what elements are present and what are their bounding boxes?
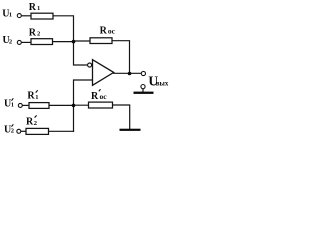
resistor Rocp: [89, 102, 113, 108]
label Roc: [100, 25, 116, 36]
label U1p: [4, 98, 14, 109]
ground bar output: [134, 92, 154, 94]
label R2p: [26, 115, 37, 127]
resistor R1p: [29, 103, 49, 109]
wire Rocp to ground: [113, 105, 130, 129]
svg-text:1: 1: [9, 12, 12, 19]
terminal output common: [141, 85, 145, 89]
label Uvyh: [148, 73, 168, 88]
svg-text:R: R: [100, 25, 108, 36]
resistor R1: [31, 13, 53, 19]
terminal U1p: [18, 103, 22, 107]
wire U1p to R1p: [22, 104, 29, 106]
svg-text:oc: oc: [100, 92, 108, 101]
wire node B to Rocp: [74, 104, 89, 106]
terminal U2p: [17, 129, 21, 133]
svg-text:R: R: [26, 117, 34, 128]
svg-text:2: 2: [34, 120, 37, 127]
ground bar Rocp: [120, 129, 141, 131]
label U2: [3, 35, 13, 46]
node A junction: [72, 40, 76, 44]
wire U2p to R2p: [21, 130, 26, 132]
terminal U1: [17, 14, 21, 18]
svg-text:2: 2: [9, 38, 12, 45]
label U1: [2, 8, 12, 19]
wire op-amp output: [114, 72, 142, 74]
wire Roc to output node: [112, 41, 130, 74]
svg-text:R: R: [91, 91, 99, 102]
resistor R2p: [26, 128, 49, 134]
label R2: [29, 27, 41, 38]
wire U1 to R1: [21, 15, 31, 17]
svg-text:2: 2: [37, 31, 40, 38]
svg-text:oc: oc: [108, 27, 116, 36]
label R1p: [27, 90, 38, 102]
wire R2p to node B: [49, 130, 74, 132]
svg-text:1: 1: [35, 94, 38, 101]
resistor R2: [31, 39, 53, 45]
svg-text:R: R: [27, 91, 35, 102]
wire R2 to node A junction: [53, 41, 74, 43]
op-amp U1: [93, 60, 114, 86]
svg-text:2: 2: [11, 128, 14, 135]
terminal output: [141, 71, 145, 75]
terminal U2: [17, 40, 21, 44]
svg-text:1: 1: [11, 102, 14, 109]
output node junction: [128, 72, 132, 76]
svg-text:R: R: [29, 27, 37, 38]
node B junction: [72, 104, 76, 108]
svg-text:вых: вых: [156, 80, 169, 87]
resistor Roc: [90, 38, 112, 44]
wire R1 to node A (down to inverting input): [53, 16, 87, 65]
svg-text:1: 1: [37, 5, 40, 12]
label U2p: [4, 124, 14, 135]
label Rocp: [91, 89, 107, 102]
op-amp inverting bubble: [88, 63, 92, 67]
wire node A to Roc: [74, 40, 91, 42]
wire non-inverting input / node B vertical: [74, 80, 93, 131]
label R1: [29, 2, 41, 13]
svg-text:R: R: [29, 2, 37, 13]
wire R1p to node B junction: [49, 104, 74, 106]
wire output ground stub: [142, 89, 144, 92]
wire U2 to R2: [21, 41, 31, 43]
